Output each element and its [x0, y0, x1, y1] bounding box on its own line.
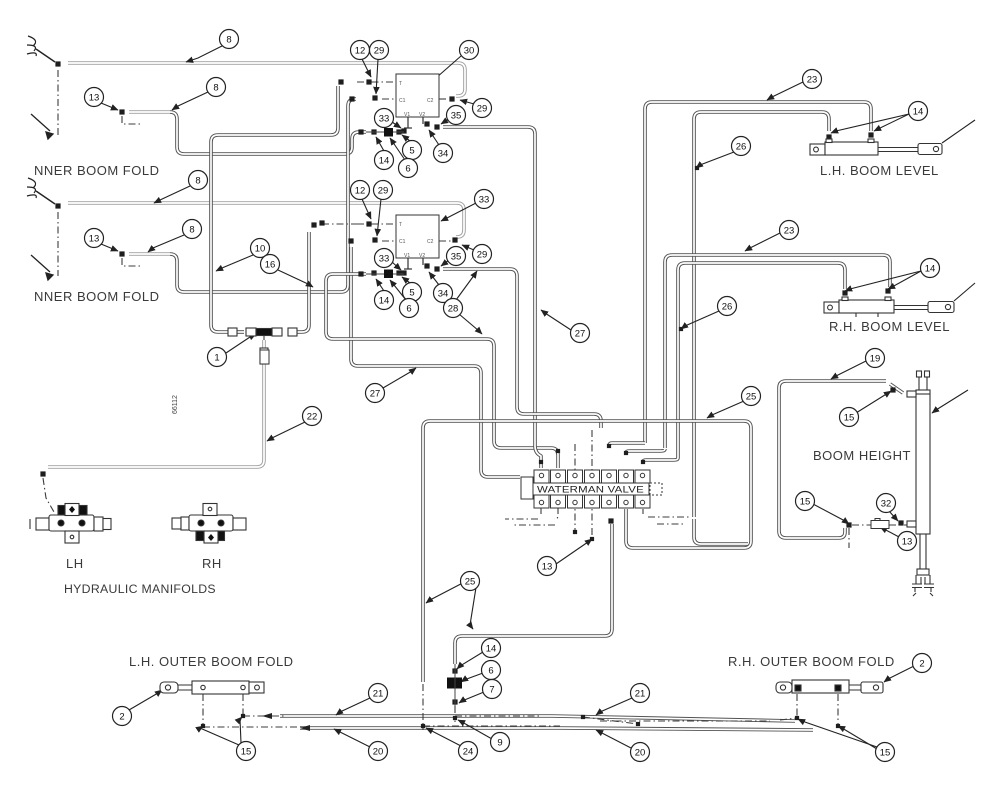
manifold RH [172, 504, 246, 544]
svg-text:6: 6 [405, 164, 410, 175]
svg-text:RH: RH [202, 556, 222, 571]
wire h10 [211, 86, 338, 332]
svg-text:33: 33 [479, 195, 490, 206]
wire hdr [326, 274, 558, 468]
svg-text:T: T [399, 222, 402, 228]
svg-text:34: 34 [438, 289, 449, 300]
svg-text:13: 13 [89, 234, 100, 245]
svg-text:20: 20 [373, 747, 384, 758]
wire hoses [48, 63, 903, 730]
svg-text:29: 29 [378, 186, 389, 197]
svg-text:5: 5 [409, 288, 414, 299]
svg-text:28: 28 [448, 304, 459, 315]
svg-text:34: 34 [438, 149, 449, 160]
svg-text:1: 1 [214, 353, 219, 364]
wire h16 [288, 232, 309, 332]
wire h22 [48, 340, 264, 467]
svg-text:C2: C2 [427, 98, 434, 104]
wire h19 [779, 381, 903, 538]
direction arrow [31, 255, 53, 280]
fitting 6 upper [384, 128, 393, 137]
wire h8b [68, 203, 464, 237]
svg-text:V2: V2 [419, 112, 425, 118]
wire h13b0 [129, 252, 170, 256]
svg-text:21: 21 [373, 689, 384, 700]
svg-text:8: 8 [189, 225, 194, 236]
svg-text:V1: V1 [404, 112, 410, 118]
svg-text:27: 27 [575, 329, 586, 340]
wire hD [694, 519, 748, 544]
fitting 6 lower [384, 270, 393, 279]
svg-text:29: 29 [374, 46, 385, 57]
svg-text:13: 13 [89, 93, 100, 104]
wire h27 [443, 127, 541, 468]
svg-text:R.H. BOOM LEVEL: R.H. BOOM LEVEL [829, 319, 950, 334]
svg-text:14: 14 [925, 264, 936, 275]
wire h10b [230, 330, 244, 334]
wire h8a [68, 63, 465, 96]
manifold LH [30, 504, 111, 544]
wire b20 [300, 728, 813, 730]
svg-text:26: 26 [736, 142, 747, 153]
leader lines [101, 46, 975, 749]
wire p6r [626, 449, 665, 453]
svg-text:LH: LH [66, 556, 84, 571]
svg-text:20: 20 [635, 748, 646, 759]
svg-text:2: 2 [119, 712, 124, 723]
svg-text:C2: C2 [427, 239, 434, 245]
cylinder boom height [907, 371, 934, 596]
fittings [40, 61, 903, 704]
svg-text:2: 2 [919, 659, 924, 670]
svg-text:66112: 66112 [172, 395, 179, 414]
svg-text:14: 14 [486, 644, 497, 655]
svg-text:C1: C1 [399, 98, 406, 104]
svg-text:14: 14 [913, 107, 924, 118]
fitting 6 stack [447, 664, 462, 706]
svg-text:15: 15 [844, 413, 855, 424]
svg-text:25: 25 [465, 577, 476, 588]
valve box u [396, 74, 439, 128]
svg-text:5: 5 [409, 146, 414, 157]
wire h23b [665, 255, 890, 448]
svg-text:33: 33 [379, 254, 390, 265]
svg-text:8: 8 [195, 176, 200, 187]
inline fitting 13 [871, 519, 889, 529]
svg-text:7: 7 [489, 685, 494, 696]
svg-text:6: 6 [488, 666, 493, 677]
svg-text:35: 35 [451, 252, 462, 263]
svg-text:29: 29 [477, 104, 488, 115]
svg-text:12: 12 [355, 186, 366, 197]
svg-text:V2: V2 [419, 253, 425, 259]
wire h23a [645, 102, 871, 443]
svg-text:23: 23 [807, 75, 818, 86]
wire h26a [694, 112, 829, 517]
svg-text:6: 6 [406, 304, 411, 315]
svg-text:35: 35 [451, 111, 462, 122]
svg-text:30: 30 [464, 46, 475, 57]
svg-text:L.H. OUTER BOOM FOLD: L.H. OUTER BOOM FOLD [129, 654, 294, 669]
svg-text:32: 32 [881, 499, 892, 510]
wire h13a [170, 112, 366, 154]
svg-text:13: 13 [902, 537, 913, 548]
svg-text:V1: V1 [404, 253, 410, 259]
svg-text:14: 14 [379, 296, 390, 307]
svg-text:22: 22 [307, 412, 318, 423]
wire h25 [423, 421, 751, 682]
svg-text:10: 10 [255, 244, 266, 255]
claw fitting [27, 178, 55, 204]
svg-text:27: 27 [370, 389, 381, 400]
tee fitting [228, 328, 297, 364]
svg-text:15: 15 [880, 748, 891, 759]
wire h27l [351, 247, 520, 477]
wire h28 [443, 269, 601, 428]
waterman valve [521, 470, 662, 508]
callout balloons [85, 30, 940, 762]
flow arrows [262, 713, 310, 731]
svg-text:WATERMAN VALVE: WATERMAN VALVE [537, 485, 644, 496]
cylinder RH boom level [824, 297, 954, 317]
svg-text:NNER BOOM FOLD: NNER BOOM FOLD [34, 163, 159, 178]
svg-text:12: 12 [355, 46, 366, 57]
svg-text:C1: C1 [399, 239, 406, 245]
wire dash-dot pilot lines [43, 70, 914, 730]
wire h13a0 [129, 110, 170, 114]
svg-text:T: T [399, 81, 402, 87]
svg-text:26: 26 [722, 302, 733, 313]
svg-text:13: 13 [542, 562, 553, 573]
svg-text:15: 15 [241, 747, 252, 758]
svg-text:25: 25 [746, 392, 757, 403]
svg-text:15: 15 [800, 497, 811, 508]
cylinder RH outer boom fold [776, 680, 883, 693]
wire h13b [170, 99, 356, 292]
svg-text:23: 23 [784, 226, 795, 237]
svg-text:8: 8 [226, 35, 231, 46]
svg-text:24: 24 [463, 747, 474, 758]
svg-text:NNER BOOM FOLD: NNER BOOM FOLD [34, 289, 159, 304]
svg-text:14: 14 [379, 156, 390, 167]
svg-text:BOOM HEIGHT: BOOM HEIGHT [813, 448, 911, 463]
svg-text:19: 19 [870, 354, 881, 365]
svg-text:HYDRAULIC MANIFOLDS: HYDRAULIC MANIFOLDS [64, 582, 216, 596]
svg-text:L.H. BOOM LEVEL: L.H. BOOM LEVEL [820, 163, 939, 178]
wire h26b [678, 263, 845, 458]
wire b21 [280, 716, 795, 721]
wire h25b [455, 524, 612, 664]
svg-text:R.H. OUTER BOOM FOLD: R.H. OUTER BOOM FOLD [728, 654, 895, 669]
svg-text:21: 21 [635, 689, 646, 700]
svg-text:16: 16 [265, 260, 276, 271]
svg-text:9: 9 [497, 738, 502, 749]
svg-text:29: 29 [477, 250, 488, 261]
cylinder LH outer boom fold [160, 681, 264, 694]
hose 22 coupling [260, 350, 269, 364]
wire p7r [643, 458, 678, 462]
wire p5r [609, 443, 645, 446]
svg-text:33: 33 [379, 114, 390, 125]
claw fitting [27, 36, 55, 62]
svg-text:8: 8 [213, 83, 218, 94]
cylinder LH boom level [810, 139, 942, 155]
direction arrow [31, 114, 53, 139]
valve box l [396, 215, 439, 269]
